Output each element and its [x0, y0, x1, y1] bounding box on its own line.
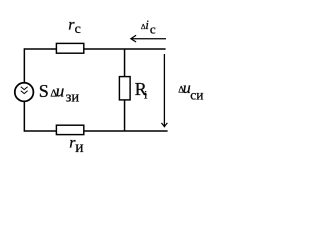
label Δi_с	[141, 18, 156, 37]
wire left (source branch)	[23, 48, 25, 131]
current source S Δu_зи	[15, 83, 34, 102]
svg-text:u: u	[56, 82, 64, 101]
svg-text:i: i	[145, 18, 149, 32]
label Ri	[135, 79, 148, 102]
resistor Ri	[119, 77, 130, 100]
label Δu_си	[178, 80, 203, 103]
svg-text:с: с	[75, 22, 81, 37]
voltage arrow Δu_си	[161, 54, 167, 127]
label rИ	[69, 134, 83, 156]
wire bottom	[24, 130, 167, 132]
svg-text:си: си	[190, 88, 203, 103]
current arrow Δi_с	[131, 35, 166, 42]
svg-text:и: и	[75, 139, 83, 156]
resistor rC (top)	[56, 43, 83, 53]
svg-text:S: S	[39, 81, 49, 101]
svg-text:i: i	[144, 88, 148, 102]
label rC	[68, 16, 81, 37]
svg-text:с: с	[150, 22, 156, 37]
wire top (gate to drain rail)	[24, 48, 165, 50]
wire drain branch (Ri branch)	[124, 49, 126, 131]
svg-text:зи: зи	[66, 89, 80, 105]
resistor rИ (bottom)	[56, 125, 83, 134]
label S Δu_зи	[39, 81, 80, 105]
